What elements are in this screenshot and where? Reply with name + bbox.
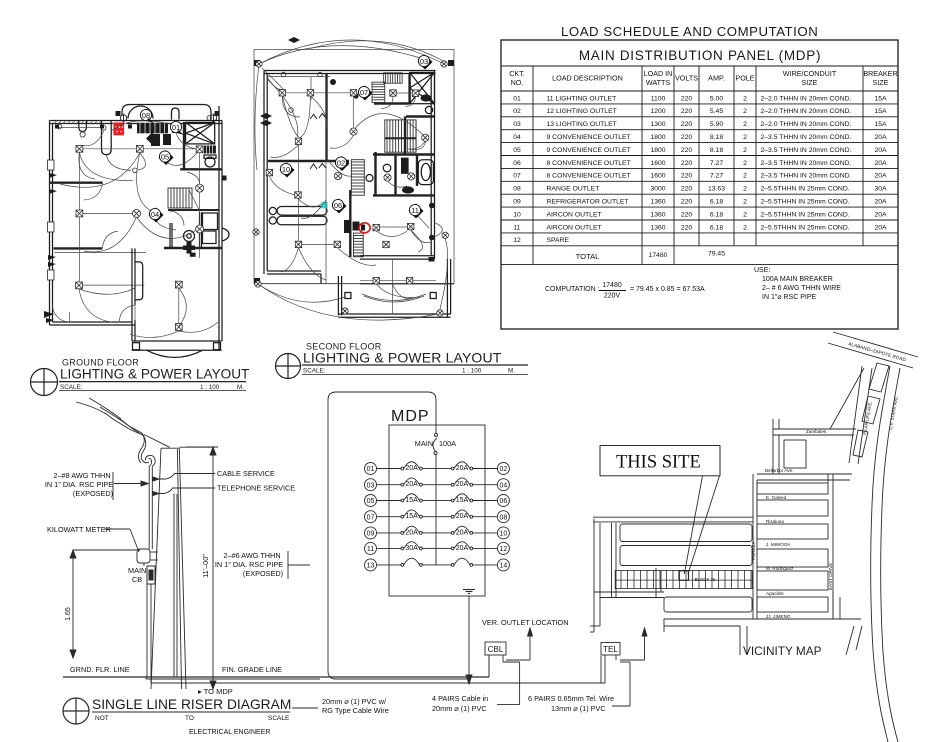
MDP circuit row 01/02 [365,462,510,475]
svg-text:TELEPHONE SERVICE: TELEPHONE SERVICE [217,484,295,493]
svg-text:06: 06 [500,498,508,505]
svg-text:GRND. FLR. LINE: GRND. FLR. LINE [70,665,130,674]
GF outer walls [50,106,223,350]
svg-text:ALABANG–ZAPOTE ROAD: ALABANG–ZAPOTE ROAD [847,341,907,363]
GF mid vertical wall [132,248,135,341]
SF bath fixtures [330,79,435,262]
svg-text:SPARE: SPARE [547,237,570,244]
svg-text:LOAD SCHEDULE AND COMPUTATION: LOAD SCHEDULE AND COMPUTATION [561,24,818,39]
svg-text:03: 03 [420,57,428,66]
svg-text:1600: 1600 [650,160,665,167]
svg-text:▸ TO MDP: ▸ TO MDP [198,687,233,696]
zambales street [773,419,856,474]
svg-text:Rizaluna: Rizaluna [766,519,784,524]
GF toilet fixture [204,155,216,167]
svg-text:2: 2 [743,147,747,154]
svg-text:LOAD DESCRIPTION: LOAD DESCRIPTION [552,74,623,83]
svg-text:05: 05 [367,498,375,505]
GF U fixture tall [102,121,112,155]
svg-text:15A: 15A [874,108,887,115]
svg-text:1100: 1100 [651,95,666,102]
svg-text:CBL: CBL [488,645,504,654]
GF wall tick right [222,176,227,181]
SF extra arcs [267,77,431,298]
GF top wall hatching [54,121,102,124]
telephone service leader [153,488,215,677]
svg-text:USE:: USE: [754,267,770,274]
hatched site block [615,570,752,588]
GF black range cross [183,242,196,257]
SF right wall door bump [436,223,443,237]
svg-text:SIZE: SIZE [873,78,889,87]
right column blocks [757,483,828,612]
SF bed [269,207,327,225]
GF door arc bottom-left [53,305,70,322]
svg-text:WIRE/CONDUIT: WIRE/CONDUIT [783,69,837,78]
svg-text:5.00: 5.00 [710,95,723,102]
svg-text:RANGE OUTLET: RANGE OUTLET [547,186,600,193]
svg-text:SCALE: SCALE [268,715,290,722]
GF X-box window top right [186,122,215,143]
svg-text:10: 10 [500,531,508,538]
main CB box [147,566,155,584]
svg-text:KILOWATT METER: KILOWATT METER [47,525,111,534]
pole outline [151,447,215,689]
svg-text:1300: 1300 [650,121,665,128]
pilar life ave road [849,366,872,464]
GF outlets [76,145,83,152]
MDP circuit row 11/12 [365,542,510,555]
svg-text:14: 14 [500,563,508,570]
svg-text:2–5.5THHN IN 25mm COND.: 2–5.5THHN IN 25mm COND. [761,186,850,193]
dimension 1.65 [70,550,140,658]
GF kitchen counter hatched [137,123,179,146]
GF black diamond at kitchen [146,133,158,145]
tel riser arrow [612,628,647,706]
svg-text:1 : 100: 1 : 100 [462,368,482,375]
SF ceiling lights [281,72,286,77]
svg-text:13: 13 [367,563,375,570]
svg-text:7.27: 7.27 [710,173,723,180]
svg-text:IN 1"⌀ RSC PIPE: IN 1"⌀ RSC PIPE [762,294,816,301]
MDP panel enclosure [389,425,485,596]
GF stair-bath wires [170,172,200,226]
GF ceiling lights [57,124,62,129]
SF X circles outer [256,61,262,67]
SF stairwell lower hatch [351,160,364,257]
svg-text:08: 08 [513,186,521,193]
svg-text:20A: 20A [874,173,887,180]
svg-text:07: 07 [367,514,375,521]
left map edge [590,519,664,632]
svg-text:04: 04 [151,210,159,219]
leader from riser title to pvc label [292,707,318,709]
svg-text:2–2.0 THHN IN 20mm COND.: 2–2.0 THHN IN 20mm COND. [761,108,852,115]
svg-text:09: 09 [513,199,521,206]
svg-text:AIRCON OUTLET: AIRCON OUTLET [547,211,602,218]
svg-text:4 PAIRS Cable in: 4 PAIRS Cable in [432,694,488,703]
svg-text:12 LIGHTING OUTLET: 12 LIGHTING OUTLET [547,108,617,115]
main breaker MAIN 100A [433,425,438,565]
computation note [545,267,841,301]
svg-text:5.45: 5.45 [710,108,723,115]
svg-text:02: 02 [337,158,345,167]
svg-text:TOTAL: TOTAL [576,252,600,261]
ground line [63,676,489,678]
svg-text:12: 12 [513,237,521,244]
MDP circuit row 07/08 [365,510,510,523]
svg-text:NO.: NO. [511,78,524,87]
left column blocks [620,524,752,612]
svg-text:20A: 20A [405,529,418,536]
svg-text:1360: 1360 [650,211,665,218]
svg-text:11 LIGHTING OUTLET: 11 LIGHTING OUTLET [547,95,617,102]
svg-text:2: 2 [743,95,747,102]
svg-text:AMP.: AMP. [708,74,725,83]
svg-text:13mm ⌀ (1) PVC: 13mm ⌀ (1) PVC [551,704,606,713]
svg-text:SINGLE LINE RISER DIAGRAM: SINGLE LINE RISER DIAGRAM [92,697,291,712]
svg-text:5.90: 5.90 [710,121,723,128]
SF outlets [279,90,285,96]
svg-text:2– # 6 AWG THHN WIRE: 2– # 6 AWG THHN WIRE [762,285,841,292]
GF red highlight box [113,122,124,135]
dimension line 11'-00" [186,447,218,689]
svg-text:07: 07 [360,88,368,97]
svg-text:17480: 17480 [602,282,622,289]
svg-text:01: 01 [172,123,180,132]
GF hatched vanity [204,146,216,154]
GF porch arc [147,350,203,357]
feeder from MDP bottom with arrow [466,596,472,684]
SF outer corner squares [254,60,454,284]
svg-text:= 79.45 x 0.85 = 67.53A: = 79.45 x 0.85 = 67.53A [630,286,705,293]
svg-text:1800: 1800 [650,147,665,154]
svg-text:30A: 30A [874,186,887,193]
GF U fixture small [79,121,87,132]
svg-text:2–3.5 THHN IN 20mm COND.: 2–3.5 THHN IN 20mm COND. [761,173,852,180]
svg-text:20A: 20A [405,481,418,488]
this site box [600,446,720,476]
SF wires [258,77,454,314]
svg-text:1360: 1360 [650,224,665,231]
SF porch double arc [362,294,426,302]
svg-text:15A: 15A [405,497,418,504]
svg-text:02: 02 [513,108,521,115]
MDP circuit row 05/06 [365,494,510,507]
svg-text:09: 09 [367,531,375,538]
svg-text:Zambales: Zambales [806,429,827,434]
svg-text:20A: 20A [456,481,469,488]
svg-text:SCALE:: SCALE: [60,384,83,391]
svg-text:220: 220 [681,160,693,167]
svg-text:1 : 100: 1 : 100 [200,384,220,391]
svg-text:FIN. GRADE LINE: FIN. GRADE LINE [222,665,282,674]
svg-text:20mm ⌀ (1) PVC: 20mm ⌀ (1) PVC [432,704,487,713]
table data rows [513,95,887,260]
svg-text:IN 1" DIA. RSC PIPE: IN 1" DIA. RSC PIPE [215,560,283,569]
svg-text:6 PAIRS 0.65mm Tel. Wire: 6 PAIRS 0.65mm Tel. Wire [528,694,614,703]
GF lavatory circle [184,231,195,242]
SF cyan highlight [321,202,328,208]
svg-text:BLOCK 35: BLOCK 35 [695,577,717,582]
svg-text:08: 08 [500,514,508,521]
svg-text:220: 220 [681,173,693,180]
svg-text:15A: 15A [874,95,887,102]
svg-text:MDP: MDP [391,408,430,425]
TEL box [601,643,620,684]
svg-text:05: 05 [513,147,521,154]
cable/tel annotation leaders [497,662,520,705]
svg-text:ELECTRICAL ENGINEER: ELECTRICAL ENGINEER [189,729,270,736]
GF wires [58,128,200,324]
svg-text:2: 2 [743,224,747,231]
svg-text:2: 2 [743,186,747,193]
svg-text:3000: 3000 [650,186,665,193]
bellarbor ave street [757,474,852,480]
svg-text:JJ. JIMENO: JJ. JIMENO [766,614,791,619]
svg-text:07: 07 [513,173,521,180]
svg-text:RG Type Cable Wire: RG Type Cable Wire [322,706,389,715]
svg-text:POLE: POLE [735,74,754,83]
svg-text:PILAR LIFE AVE.: PILAR LIFE AVE. [862,401,873,435]
svg-text:(EXPOSED): (EXPOSED) [243,569,283,578]
svg-text:11: 11 [513,224,520,231]
svg-text:220: 220 [681,134,693,141]
svg-text:NOT: NOT [95,715,109,722]
svg-text:2–#6 AWG THHN: 2–#6 AWG THHN [223,551,280,560]
ver outlet arrow [506,628,533,660]
svg-text:2–#8 AWG THHN: 2–#8 AWG THHN [53,471,110,480]
SF labels [418,55,433,70]
GF inner wall A [50,181,103,183]
SF interior walls [268,74,434,258]
GF door arc mid-right [120,306,136,322]
svg-text:2–3.5 THHN IN 20mm COND.: 2–3.5 THHN IN 20mm COND. [761,160,852,167]
svg-text:CB: CB [132,575,142,584]
svg-text:10: 10 [513,211,521,218]
svg-text:20A: 20A [874,147,887,154]
svg-text:8 CONVENIENCE OUTLET: 8 CONVENIENCE OUTLET [547,160,631,167]
svg-text:2–5.5THHN IN 25mm COND.: 2–5.5THHN IN 25mm COND. [761,211,850,218]
svg-text:1200: 1200 [650,108,665,115]
SF porch walls [338,259,454,317]
svg-text:2: 2 [743,121,747,128]
svg-text:1360: 1360 [650,199,665,206]
svg-text:1600: 1600 [650,173,665,180]
svg-text:20mm ⌀ (1) PVC w/: 20mm ⌀ (1) PVC w/ [322,697,387,706]
MDP circuit row 03/04 [365,478,510,491]
feeder loop riser to MDP [328,392,469,679]
bottom streets [656,568,862,655]
GF wire arcs [60,121,197,338]
alabang-zapote road [828,332,918,368]
svg-text:20A: 20A [456,529,469,536]
svg-text:LIGHTING & POWER LAYOUT: LIGHTING & POWER LAYOUT [60,367,249,382]
svg-text:220: 220 [681,95,693,102]
svg-text:2: 2 [743,134,747,141]
svg-text:13.63: 13.63 [708,186,725,193]
SF outer boundary [254,50,454,284]
svg-text:220: 220 [681,186,693,193]
svg-text:220: 220 [681,224,693,231]
this site leader lines [684,476,719,574]
svg-text:2: 2 [743,211,747,218]
svg-text:Bellarbor Ave.: Bellarbor Ave. [765,468,794,473]
svg-text:LOAD IN: LOAD IN [644,69,673,78]
svg-text:20A: 20A [874,199,887,206]
svg-text:11: 11 [367,546,374,553]
underground feeder to MDP [146,656,605,683]
svg-text:100A MAIN BREAKER: 100A MAIN BREAKER [762,276,833,283]
SF switch chevrons [310,114,326,170]
svg-text:M.: M. [237,384,244,391]
svg-text:9 CONVENIENCE OUTLET: 9 CONVENIENCE OUTLET [547,134,631,141]
svg-text:SIZE: SIZE [802,78,818,87]
GF right wall tab [222,228,229,241]
svg-text:LIGHTING & POWER LAYOUT: LIGHTING & POWER LAYOUT [303,350,502,366]
GF extra wire arcs [79,131,218,332]
svg-text:(EXPOSED): (EXPOSED) [73,489,113,498]
svg-text:SCALE:: SCALE: [303,368,326,375]
svg-text:08: 08 [142,111,150,120]
GF bottom-right bath walls [170,212,218,248]
svg-text:04: 04 [513,134,521,141]
left column streets [593,517,753,598]
GF labels [140,109,154,123]
svg-text:M. Rodriguez: M. Rodriguez [766,566,794,571]
GF small U fixture above 01 [172,108,180,120]
svg-text:220: 220 [681,211,693,218]
svg-text:20A: 20A [456,465,469,472]
SF X-box top right [410,72,435,103]
svg-text:20A: 20A [874,134,887,141]
svg-text:MAIN: MAIN [415,439,433,448]
riser title symbol [63,698,89,724]
svg-text:02: 02 [500,466,508,473]
svg-text:03: 03 [513,121,521,128]
svg-text:20A: 20A [456,545,469,552]
svg-text:M.: M. [508,368,515,375]
svg-text:220: 220 [681,108,693,115]
svg-text:7.27: 7.27 [710,160,723,167]
svg-text:REFRIGERATOR OUTLET: REFRIGERATOR OUTLET [547,199,629,206]
svg-text:11: 11 [411,206,419,215]
svg-text:2–3.5 THHN IN 20mm COND.: 2–3.5 THHN IN 20mm COND. [761,134,852,141]
svg-text:8.18: 8.18 [710,147,723,154]
svg-text:06: 06 [513,160,521,167]
svg-text:8 CONVENIENCE OUTLET: 8 CONVENIENCE OUTLET [547,173,631,180]
svg-text:79.45: 79.45 [708,250,725,257]
GF pocket door tab [135,262,143,300]
svg-text:2–2.0 THHN IN 20mm COND.: 2–2.0 THHN IN 20mm COND. [761,121,852,128]
svg-text:220: 220 [681,199,693,206]
svg-text:MAIN DISTRIBUTION PANEL (MDP): MAIN DISTRIBUTION PANEL (MDP) [579,48,821,63]
svg-text:10: 10 [282,165,290,174]
svg-text:6.18: 6.18 [710,199,723,206]
SF big wire arcs [255,40,448,320]
svg-text:2: 2 [743,173,747,180]
svg-text:15A: 15A [405,513,418,520]
svg-text:Apacible: Apacible [766,591,784,596]
svg-text:01: 01 [513,95,521,102]
svg-text:11'–00": 11'–00" [201,554,210,578]
svg-text:IN 1" DIA. RSC PIPE: IN 1" DIA. RSC PIPE [45,480,113,489]
svg-text:20A: 20A [456,513,469,520]
GF inner wall B [54,247,223,250]
svg-text:2–3.5 THHN IN 20mm COND.: 2–3.5 THHN IN 20mm COND. [761,147,852,154]
svg-text:04: 04 [500,482,508,489]
svg-text:BREAKER: BREAKER [863,69,897,78]
GF title circle [31,369,58,396]
svg-text:17480: 17480 [649,252,668,259]
svg-text:TEL: TEL [603,645,618,654]
svg-text:2: 2 [743,108,747,115]
svg-text:05: 05 [161,152,169,161]
svg-text:13 LIGHTING OUTLET: 13 LIGHTING OUTLET [547,121,617,128]
svg-text:8.18: 8.18 [710,134,723,141]
svg-text:15A: 15A [456,497,469,504]
blocks between pilar and starr [853,363,889,457]
svg-text:C.V. STARR AVE.: C.V. STARR AVE. [888,395,899,430]
table outer border [501,40,898,329]
svg-text:30A: 30A [405,545,418,552]
svg-text:WATTS: WATTS [646,78,671,87]
GF bathroom mid-right walls [180,122,222,169]
GF wall switches left [44,111,220,323]
svg-text:VER. OUTLET LOCATION: VER. OUTLET LOCATION [482,618,569,627]
svg-text:1800: 1800 [650,134,665,141]
svg-text:6.18: 6.18 [710,224,723,231]
svg-text:1.65: 1.65 [65,607,72,621]
svg-text:J. MIWOOA: J. MIWOOA [766,542,791,547]
svg-text:CABLE SERVICE: CABLE SERVICE [217,469,275,478]
svg-text:20A: 20A [405,465,418,472]
svg-text:TO: TO [185,715,194,722]
svg-text:01: 01 [367,466,375,473]
svg-text:220V: 220V [604,293,621,300]
svg-text:220: 220 [681,147,693,154]
svg-text:EAST DRIVE: EAST DRIVE [828,563,833,590]
svg-text:THIS SITE: THIS SITE [616,453,701,473]
GF stairs [168,188,192,208]
SF tub [418,160,433,185]
SF red revision circle [353,222,371,233]
svg-text:220: 220 [681,121,693,128]
svg-text:6.18: 6.18 [710,211,723,218]
svg-text:9 CONVENIENCE OUTLET: 9 CONVENIENCE OUTLET [547,147,631,154]
svg-text:100A: 100A [439,439,456,448]
svg-text:VOLTS: VOLTS [675,74,698,83]
svg-text:03: 03 [367,482,375,489]
svg-text:E. Galved: E. Galved [766,495,787,500]
svg-text:20A: 20A [874,211,887,218]
svg-text:2–5.5THHN IN 25mm COND.: 2–5.5THHN IN 25mm COND. [761,224,850,231]
SF closet shelving [372,73,402,103]
svg-text:12: 12 [500,546,508,553]
MDP circuit row 13/14 [365,558,510,571]
service drop squiggly wires [76,398,170,463]
svg-text:CKT.: CKT. [509,69,525,78]
svg-text:2–2.0 THHN IN 20mm COND.: 2–2.0 THHN IN 20mm COND. [761,95,852,102]
kilowatt meter symbol [137,549,158,563]
svg-text:MAIN: MAIN [128,566,146,575]
SF main walls [264,71,436,285]
riser conduit down from meter [144,563,151,677]
svg-text:2–5.5THHN IN 25mm COND.: 2–5.5THHN IN 25mm COND. [761,199,850,206]
svg-text:2: 2 [743,160,747,167]
SF title circle [276,354,301,379]
c.v. starr ave road (curving right road) [871,366,900,742]
